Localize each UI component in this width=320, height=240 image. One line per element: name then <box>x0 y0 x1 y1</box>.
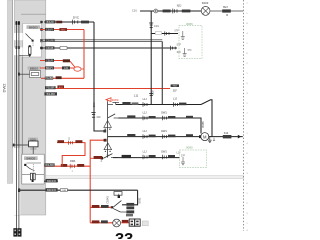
triangle symbol in module y146 <box>104 143 112 157</box>
vertical bus x151 <box>149 11 159 105</box>
red vertical C3U/Y drop <box>83 30 85 79</box>
motor M <box>199 133 209 141</box>
wire B4U/R y22 <box>44 20 94 24</box>
module DW2 sidebar <box>7 0 12 184</box>
svg-text:B2J: B2J <box>223 5 228 9</box>
svg-text:C0B: C0B <box>62 190 67 192</box>
svg-text:C1841: C1841 <box>105 196 109 204</box>
vertical drop x137.5 to switch <box>122 190 142 205</box>
black pin into module y131 <box>103 130 106 133</box>
svg-text:L31: L31 <box>64 67 69 70</box>
svg-text:B6J/R B: B6J/R B <box>47 180 56 183</box>
svg-text:33: 33 <box>115 231 133 239</box>
relay feed vertical from B8503 <box>21 57 23 154</box>
wire jog to x214 <box>201 100 212 137</box>
svg-text:L11: L11 <box>134 94 139 98</box>
backdrop <box>0 0 250 239</box>
relay B4805 contact <box>24 163 41 172</box>
switch module spine <box>107 102 109 158</box>
red stub to module pin b y158.5 <box>90 156 103 163</box>
svg-text:DYC: DYC <box>73 16 79 20</box>
bus wire right <box>18 21 20 229</box>
red wire lamp to connector <box>121 220 129 223</box>
pin field cutouts left of B8503 <box>13 33 22 55</box>
svg-text:C08: C08 <box>92 102 96 108</box>
svg-text:B8D: B8D <box>61 29 66 31</box>
svg-text:C1U: C1U <box>132 8 137 12</box>
ground symbol in 0080 lower <box>181 155 186 165</box>
wire B6J/R long y190 from bus <box>18 188 138 192</box>
node C1U <box>132 8 137 12</box>
svg-text:BR2/Y: BR2/Y <box>46 67 53 70</box>
svg-text:K14: K14 <box>224 131 229 135</box>
svg-text:57F: 57F <box>181 155 186 158</box>
branch wire y33.5 to quiescent current box <box>151 29 179 35</box>
wire tags on red riser row <box>57 137 82 144</box>
connector 57F on wire y48 <box>171 42 182 53</box>
svg-text:DW1: DW1 <box>161 111 167 114</box>
svg-text:B4L/BR: B4L/BR <box>47 93 56 96</box>
wire B0L/BR y166 red from relay B4805 <box>44 160 90 172</box>
svg-text:B0B1: B0B1 <box>139 197 142 204</box>
svg-text:DW3: DW3 <box>112 98 119 102</box>
svg-text:31F: 31F <box>96 115 101 119</box>
relay B8503 box <box>23 23 42 57</box>
svg-text:C3U/B: C3U/B <box>46 47 53 50</box>
svg-text:C08: C08 <box>150 90 154 96</box>
diode box 52/0 <box>28 137 38 150</box>
svg-text:B6J/R B: B6J/R B <box>47 189 56 192</box>
svg-text:R: R <box>226 13 228 17</box>
off-page arrow DW3 <box>106 98 119 103</box>
svg-text:B4J: B4J <box>59 87 63 89</box>
switch C1841 contacts <box>111 201 134 217</box>
svg-text:Y0L/BR: Y0L/BR <box>45 77 54 80</box>
svg-text:DW1: DW1 <box>161 150 167 153</box>
ground symbol in 0080 upper b <box>183 48 193 56</box>
wire module out y118 <box>118 111 205 133</box>
module panel (central electronic module) <box>13 0 46 215</box>
svg-text:C1U: C1U <box>154 25 159 28</box>
page number 33 <box>115 231 133 240</box>
wire Y0L/BR long y88.5 red <box>44 84 179 97</box>
wire motor to page edge K14 <box>212 131 243 139</box>
fuse B8510 feed stub <box>18 73 30 76</box>
coil-to-bus stub <box>19 55 30 57</box>
svg-text:DW2: DW2 <box>1 83 6 93</box>
wire BR2/Y stub y67.5 red <box>40 66 74 70</box>
diode box output wire <box>32 147 34 155</box>
wire C3U/Y y29.5 red <box>40 28 84 32</box>
wire C3L/R stub y60.5 red <box>40 59 75 68</box>
lamp in red row <box>113 219 121 227</box>
svg-text:B0B5: B0B5 <box>201 121 205 128</box>
svg-text:M: M <box>203 134 207 139</box>
svg-text:C3L/R: C3L/R <box>46 59 53 62</box>
red zigzag riser <box>57 143 85 167</box>
relay B8503 output pins <box>40 21 42 50</box>
relay B4805 coil <box>22 173 44 182</box>
svg-text:C3U/W: C3U/W <box>46 39 54 42</box>
triangle symbol in module y124 <box>104 121 112 130</box>
contact symbol in module y118 <box>108 114 119 118</box>
bus connector blocks bottom <box>13 228 21 236</box>
black vertical DYC drop x93.5 <box>91 22 105 131</box>
wire C3U/B y48 <box>40 46 177 50</box>
red distribution vertical x90 <box>90 139 106 223</box>
sidebar label DW2 <box>1 83 6 93</box>
svg-text:57F: 57F <box>188 49 193 52</box>
relay B8503 coil <box>28 45 31 57</box>
svg-text:B4805: B4805 <box>26 156 35 160</box>
splice node OD <box>74 67 84 71</box>
svg-text:Y0L/BR: Y0L/BR <box>46 87 55 90</box>
svg-text:DW1: DW1 <box>70 160 76 163</box>
wire lamp to page edge B2J <box>210 5 243 17</box>
svg-text:N2J: N2J <box>177 4 182 8</box>
wire module out y107 <box>116 98 201 107</box>
fuse B8510 <box>28 66 41 77</box>
wire B6J/R stub y181 from B4805 <box>44 179 58 183</box>
connector pair bottom <box>129 219 148 226</box>
red lamp row y222.8 <box>90 220 113 223</box>
svg-text:DW1: DW1 <box>161 130 167 133</box>
svg-text:B4U/R: B4U/R <box>47 21 54 24</box>
svg-text:57F: 57F <box>174 29 179 32</box>
svg-text:B8510: B8510 <box>30 66 39 70</box>
wire from sidebar to diode box <box>13 144 29 147</box>
svg-text:0080: 0080 <box>186 146 193 150</box>
antenna symbol in module <box>108 102 119 104</box>
connector DYC on wire y22 <box>73 16 89 25</box>
wire top y11 to lamp <box>140 4 201 14</box>
bus terminal pins top <box>16 21 20 49</box>
wire module out y139 to motor <box>108 130 200 139</box>
relay B8503 contact <box>26 34 34 47</box>
contact symbol in module y157 <box>101 154 119 160</box>
bus wire left <box>15 21 17 229</box>
ground symbol in 0080 upper a <box>181 31 185 39</box>
svg-text:B8503: B8503 <box>29 25 38 29</box>
wire module out y157 <box>113 150 181 159</box>
wire Y0L/BR y76.6 red <box>41 76 84 80</box>
red feed to switch y207.3 <box>90 205 111 208</box>
svg-text:K003: K003 <box>202 1 209 5</box>
thick wire vertical drop x162 <box>161 42 163 105</box>
ground block 0080 upper <box>179 22 202 59</box>
chassis ground after motor <box>208 137 215 143</box>
svg-text:B0L/BR: B0L/BR <box>45 164 54 167</box>
lamp K003 <box>201 1 210 15</box>
wire C3U/W thick y40.5 <box>40 39 162 43</box>
svg-text:31F: 31F <box>173 89 178 92</box>
svg-text:H3Z: H3Z <box>173 86 178 88</box>
page edge ruler <box>244 0 249 232</box>
separator band <box>44 176 244 179</box>
svg-text:C3U/Y: C3U/Y <box>46 28 53 31</box>
switch C1841 body <box>105 192 122 204</box>
relay B4805 box <box>22 154 44 184</box>
ground block 0080 lower <box>180 146 207 168</box>
